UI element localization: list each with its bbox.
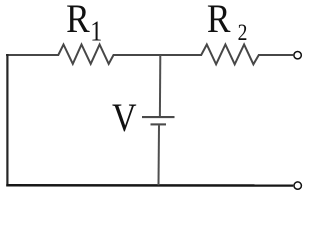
svg-text:R: R xyxy=(66,0,90,41)
svg-text:V: V xyxy=(112,95,137,140)
svg-text:1: 1 xyxy=(90,16,102,48)
svg-text:2: 2 xyxy=(238,20,248,45)
svg-text:R: R xyxy=(207,0,231,41)
